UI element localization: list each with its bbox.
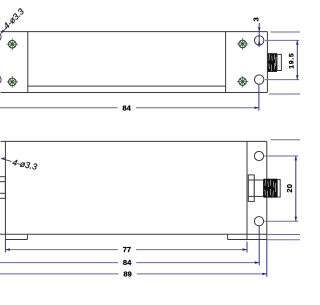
dimension 84 extension line (from bottom-right hole) [258,85,260,111]
dimension 89 extension line (right edge) [266,240,268,277]
dimension 84 (side view) [0,262,118,264]
left mounting foot [5,234,27,239]
connector neck [254,180,263,196]
inner wall line [28,85,226,87]
mounting hole (top-right) [255,36,264,45]
mounting hole arc (cut off, top-left) [0,32,1,41]
svg-text:20: 20 [285,184,294,193]
dimension 84 extension line (from bottom hole) [258,226,260,266]
extension line from side-view top edge (right) [271,139,301,141]
screw A1 (top-left) [7,38,19,50]
mounting hole (side view, bottom) [254,217,263,226]
dimension 19.5 line [296,40,298,79]
left partition line [27,32,29,93]
screw A2 (bottom-left) [7,76,19,88]
svg-text:84: 84 [123,258,132,267]
dimension 77 [5,249,117,251]
dimension 89 [0,273,119,275]
connector tip (side view) [277,180,280,198]
connector tip [277,54,281,70]
dimension 20 line [295,156,297,221]
screw A3 (top-right) [237,38,249,50]
dimension 3 arrows [258,27,261,31]
dimension 84 (top view) [0,107,118,109]
leader 4-ø3.3 (top view) [0,6,26,34]
mounting hole (bottom-right) [255,75,264,84]
svg-text:19.5: 19.5 [289,53,296,69]
knurled nut (side view) [264,179,281,198]
top view outline [1,32,268,93]
dimension 3: extension/dim line through top-right hole [258,23,260,47]
svg-text:3: 3 [252,17,261,21]
svg-text:77: 77 [123,245,131,254]
dimension 20 extension lines [264,155,298,157]
extension line from side-view bottom edge (right) [267,234,300,236]
mounting hole arc (cut off, bottom-left) [0,75,1,84]
mounting hole (side view, top) [254,151,263,160]
dimension 77 extension lines [4,240,6,253]
input connector (left, cut off) [0,177,5,199]
output connector (right side view): hex nut [248,175,263,202]
end plate partition [246,141,248,239]
dimension 19.5 extension lines [265,39,299,41]
right mounting foot [228,234,267,239]
right partition line [225,32,227,93]
leader 4-ø3.3 (side view) [0,157,38,172]
extension line from top edge (right, cut-off dim) [271,31,301,33]
svg-text:84: 84 [122,103,131,112]
extension line from bottom edge (right, cut-off dim) [269,93,300,95]
screw A4 (bottom-right) [237,76,249,88]
extension line from foot bottom (right) [267,239,300,241]
RF connector (top view): knurled nut [268,53,282,72]
side view outline [0,141,267,239]
svg-text:89: 89 [123,270,131,279]
